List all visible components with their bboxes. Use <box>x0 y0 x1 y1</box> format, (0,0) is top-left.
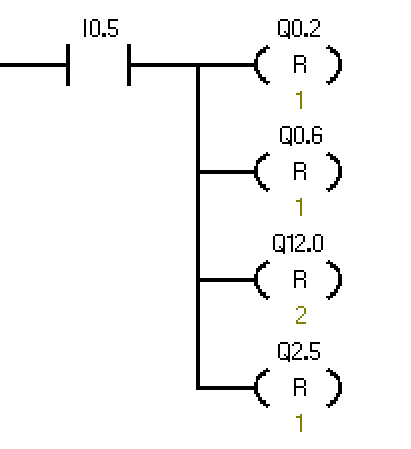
wire: vertical branch rail <box>196 63 200 390</box>
contact I0.5 right bar <box>127 44 131 86</box>
coil Q0.6 right parenthesis <box>326 152 342 192</box>
operand value 2 for coil Q12.0 <box>296 306 306 324</box>
coil Q12.0 R (reset) <box>294 270 306 288</box>
label Q2.5 <box>278 342 320 362</box>
label I0.5 <box>84 19 118 37</box>
coil Q12.0 left parenthesis <box>254 260 270 300</box>
coil Q0.2 left parenthesis <box>254 45 270 85</box>
coil Q0.2 R (reset) <box>294 55 306 73</box>
wire: left rail to contact I0.5 <box>0 63 66 67</box>
label Q0.2 <box>278 19 320 39</box>
coil Q2.5 right parenthesis <box>326 368 342 408</box>
coil Q0.6 R (reset) <box>294 162 306 180</box>
coil Q0.2 right parenthesis <box>326 45 342 85</box>
coil Q0.6 left parenthesis <box>254 152 270 192</box>
operand value 1 for coil Q0.6 <box>296 198 302 216</box>
wire: branch to coil Q0.6 <box>196 170 257 174</box>
wire: branch to coil Q2.5 <box>196 386 257 390</box>
wire: contact to coil Q0.2 / branch node <box>131 63 257 67</box>
label Q12.0 <box>273 234 323 254</box>
contact I0.5 left bar <box>66 44 70 86</box>
operand value 1 for coil Q0.2 <box>296 91 302 109</box>
coil Q2.5 left parenthesis <box>254 368 270 408</box>
coil Q12.0 right parenthesis <box>326 260 342 300</box>
wire: branch to coil Q12.0 <box>196 278 257 282</box>
label Q0.6 <box>280 126 322 146</box>
operand value 1 for coil Q2.5 <box>296 414 302 432</box>
coil Q2.5 R (reset) <box>294 378 306 396</box>
